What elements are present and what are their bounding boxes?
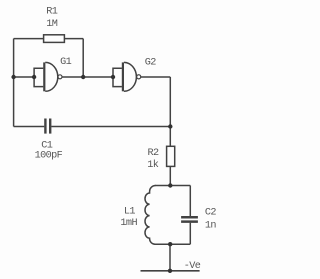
- gate G1 output bubble: [58, 75, 62, 79]
- node junction dot rail: [168, 269, 172, 273]
- wire G1 input tie bracket: [34, 68, 43, 86]
- wire R1 left lead: [14, 38, 44, 40]
- node junction dot G1 input bracket: [32, 75, 36, 79]
- wire G1 input feed: [14, 76, 34, 78]
- wire tank bottom: [155, 243, 191, 245]
- svg-text:R2: R2: [147, 148, 159, 159]
- capacitor C2: [181, 216, 198, 219]
- node junction dot R1/G1 output: [81, 75, 85, 79]
- svg-text:1n: 1n: [205, 220, 217, 231]
- node junction dot G2 input bracket: [111, 75, 115, 79]
- resistor R2: [167, 146, 175, 166]
- node junction dot tank top: [168, 183, 172, 187]
- wire right vertical down to R2: [169, 77, 171, 146]
- svg-text:1mH: 1mH: [120, 218, 137, 229]
- wire R1 right lead: [64, 38, 83, 40]
- resistor R1: [44, 35, 65, 43]
- wire G2 output: [141, 76, 171, 78]
- svg-text:-Ve: -Ve: [184, 261, 201, 272]
- wire C1 right lead: [51, 126, 170, 128]
- wire to negative rail: [169, 244, 171, 271]
- gate G2 body: [122, 62, 124, 91]
- svg-text:R1: R1: [46, 6, 58, 17]
- inductor L1: [145, 186, 155, 245]
- node junction dot left feedback/G1 input: [11, 75, 15, 79]
- node junction dot tank bottom: [168, 242, 172, 246]
- node junction dot C1/R2: [168, 124, 172, 128]
- svg-text:1k: 1k: [147, 159, 159, 171]
- gate G2 output bubble: [137, 75, 141, 79]
- svg-text:L1: L1: [124, 207, 136, 218]
- wire tank top: [155, 185, 190, 187]
- wire C2 bottom lead: [189, 223, 191, 245]
- svg-text:G2: G2: [145, 58, 157, 69]
- wire top-left vertical (feedback left leg): [13, 39, 15, 127]
- wire feedback right vertical: [82, 39, 84, 77]
- svg-text:G1: G1: [60, 57, 72, 68]
- svg-text:C2: C2: [205, 208, 217, 219]
- wire R2 bottom lead: [169, 166, 171, 185]
- svg-text:1M: 1M: [46, 19, 58, 30]
- negative supply rail -Ve: [141, 270, 200, 272]
- wire C2 top lead: [189, 186, 191, 217]
- capacitor C1: [44, 119, 46, 134]
- wire G1 output to G2 input: [62, 76, 113, 78]
- gate G1 body (NAND as inverter): [43, 62, 45, 91]
- wire G2 input tie bracket: [113, 68, 122, 86]
- svg-text:100pF: 100pF: [35, 151, 63, 162]
- wire C1 left lead: [14, 126, 45, 128]
